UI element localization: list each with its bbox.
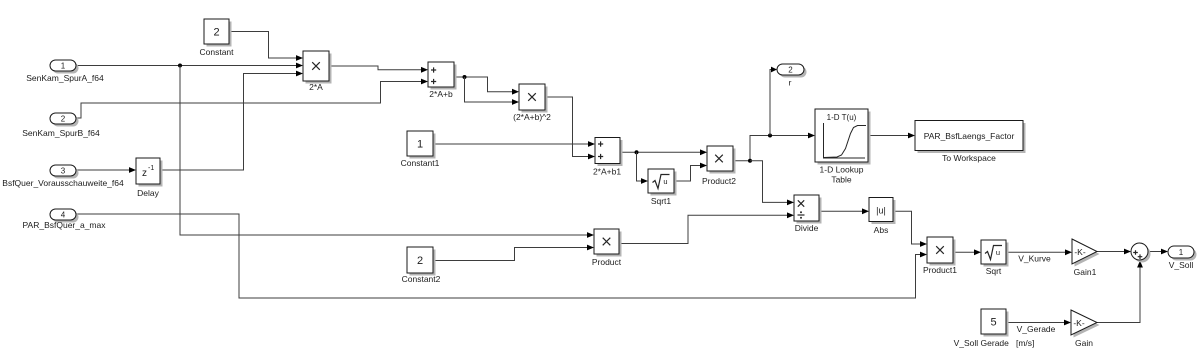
wire Constant2 to Product in2: [433, 245, 594, 261]
wire Constant 5 to Gain, net V_Gerade: [1006, 320, 1071, 334]
svg-text:Product2: Product2: [702, 176, 736, 186]
product block Product: [592, 229, 622, 267]
sqrt block Sqrt: [981, 240, 1009, 276]
svg-text:u: u: [663, 177, 667, 186]
junction node on Product2 output: [748, 159, 752, 163]
svg-text:r: r: [789, 78, 792, 88]
wire Product2 out up to 1-D Lookup Table: [733, 133, 815, 161]
wire Sum to outport V_Soll: [1148, 249, 1168, 255]
svg-text:Gain1: Gain1: [1074, 267, 1097, 277]
svg-text:V_Kurve: V_Kurve: [1018, 254, 1051, 264]
constant block Constant value 2: [199, 19, 234, 57]
constant block Constant1 value 1: [401, 131, 440, 168]
svg-text:z: z: [142, 168, 147, 179]
svg-text:-1: -1: [148, 165, 154, 172]
svg-text:SenKam_SpurB_f64: SenKam_SpurB_f64: [22, 128, 100, 138]
wire Delay to 2*A in3: [160, 71, 303, 170]
svg-text:To Workspace: To Workspace: [942, 153, 996, 163]
svg-text:PAR_BsfQuer_a_max: PAR_BsfQuer_a_max: [23, 220, 107, 230]
inport 1 SenKam_SpurA_f64: [26, 60, 104, 83]
svg-text:-K-: -K-: [1074, 247, 1086, 257]
svg-text:|u|: |u|: [876, 206, 886, 216]
wire junction down to Sqrt1: [637, 152, 649, 184]
wire Product to Divide in2: [619, 212, 794, 243]
wire inport4 to Product1 in2: [76, 214, 927, 298]
svg-text:Sqrt1: Sqrt1: [651, 196, 672, 206]
inport 3 BsfQuer_Vorausschauweite_f64: [2, 165, 124, 188]
wire junction to (2*A+b)^2 in2: [465, 77, 520, 105]
svg-text:3: 3: [61, 167, 66, 176]
svg-text:u: u: [996, 248, 1000, 257]
wire Constant1 to 2*A+b1 in1: [433, 141, 595, 147]
wire 2*A+b out to (2*A+b)^2 in1: [454, 77, 519, 95]
wire junction up to outport r: [770, 67, 777, 136]
inport 2 SenKam_SpurB_f64: [22, 113, 100, 138]
wire Gain1 to Sum: [1097, 249, 1131, 255]
svg-text:1: 1: [1179, 248, 1184, 257]
svg-text:Constant: Constant: [199, 47, 234, 57]
delay block Delay z^-1: [136, 158, 163, 198]
wire Constant to 2*A in1: [229, 32, 303, 61]
svg-text:SenKam_SpurA_f64: SenKam_SpurA_f64: [26, 73, 104, 83]
product block Product1: [923, 237, 957, 275]
wire 2*A+b1 out to Product2 in1: [620, 149, 707, 155]
svg-text:5: 5: [990, 317, 996, 329]
inport 4 PAR_BsfQuer_a_max: [23, 209, 107, 230]
svg-text:1: 1: [417, 139, 423, 151]
svg-text:Table: Table: [831, 175, 852, 185]
1-D Lookup Table U: [815, 109, 871, 185]
outport 2 r: [777, 64, 807, 88]
product block Product2: [702, 146, 736, 186]
svg-text:1: 1: [61, 62, 66, 71]
sum block 2*A+b: [428, 62, 457, 99]
svg-text:-K-: -K-: [1073, 318, 1085, 328]
junction node on inport1 wire: [178, 64, 182, 68]
svg-text:V_Soll: V_Soll: [1169, 260, 1194, 270]
svg-text:2: 2: [417, 255, 423, 267]
sum block 2*A+b1: [593, 138, 623, 177]
junction node on 2*A+b1 output: [635, 150, 639, 154]
svg-text:Constant2: Constant2: [402, 274, 441, 284]
svg-text:V_Gerade: V_Gerade: [1017, 324, 1056, 334]
svg-text:Product1: Product1: [923, 265, 957, 275]
svg-text:2: 2: [213, 27, 219, 39]
gain block Gain1: [1072, 239, 1100, 277]
wire (2*A+b)^2 to 2*A+b1 in2: [545, 97, 595, 159]
junction node on lookup wire: [768, 134, 772, 138]
svg-text:2*A: 2*A: [309, 82, 323, 92]
to-workspace block PAR_BsfLaengs_Factor: [915, 121, 1026, 164]
wire inport2 to 2*A+b in2: [76, 79, 428, 118]
svg-text:2: 2: [61, 115, 66, 124]
svg-text:BsfQuer_Vorausschauweite_f64: BsfQuer_Vorausschauweite_f64: [2, 178, 124, 188]
svg-text:Sqrt: Sqrt: [986, 266, 1002, 276]
wire Sqrt1 to Product2 in2: [674, 163, 707, 181]
sqrt block Sqrt1: [648, 169, 677, 206]
svg-text:V_Soll Gerade [m/s]: V_Soll Gerade [m/s]: [954, 338, 1035, 348]
wire junction to Divide in1: [750, 161, 794, 206]
svg-text:PAR_BsfLaengs_Factor: PAR_BsfLaengs_Factor: [924, 131, 1015, 141]
product block (2*A+b)^2: [513, 84, 551, 122]
svg-text:Delay: Delay: [137, 188, 159, 198]
svg-text:2*A+b: 2*A+b: [429, 89, 453, 99]
svg-text:(2*A+b)^2: (2*A+b)^2: [513, 112, 551, 122]
product block 2*A U: 3 inputs: [303, 51, 332, 92]
wire inport3 to Delay: [76, 167, 136, 173]
outport 1 V_Soll: [1168, 246, 1197, 270]
svg-text:Abs: Abs: [874, 225, 889, 235]
constant block V_Soll Gerade value 5: [954, 309, 1035, 348]
sum junction circle: [1131, 243, 1151, 263]
svg-text:1-D Lookup: 1-D Lookup: [820, 165, 864, 175]
wire Product1 to Sqrt: [953, 249, 981, 255]
svg-text:Product: Product: [592, 257, 622, 267]
constant block Constant2 value 2: [402, 247, 441, 284]
svg-text:Gain: Gain: [1075, 338, 1093, 348]
gain block Gain: [1071, 310, 1100, 348]
svg-text:Constant1: Constant1: [401, 158, 440, 168]
junction node on 2*A+b output: [463, 75, 467, 79]
abs block Abs: [869, 198, 896, 236]
wire junction down to Product in1: [180, 66, 594, 238]
svg-text:4: 4: [61, 211, 66, 220]
wire Sqrt to Gain1, net V_Kurve: [1006, 249, 1072, 263]
wire 1-D Lookup Table to To Workspace: [868, 133, 915, 139]
svg-text:1-D T(u): 1-D T(u): [827, 113, 857, 122]
divide block Divide: [794, 195, 822, 233]
wire Gain up to Sum: [1097, 261, 1143, 323]
wire Divide to Abs: [819, 208, 869, 214]
svg-text:2: 2: [788, 66, 793, 75]
wire inport1 to 2*A in2: [76, 63, 303, 69]
wire Abs to Product1 in1: [893, 211, 927, 247]
svg-text:Divide: Divide: [795, 223, 819, 233]
wire 2*A to 2*A+b in1: [329, 66, 428, 73]
svg-text:2*A+b1: 2*A+b1: [593, 167, 621, 177]
